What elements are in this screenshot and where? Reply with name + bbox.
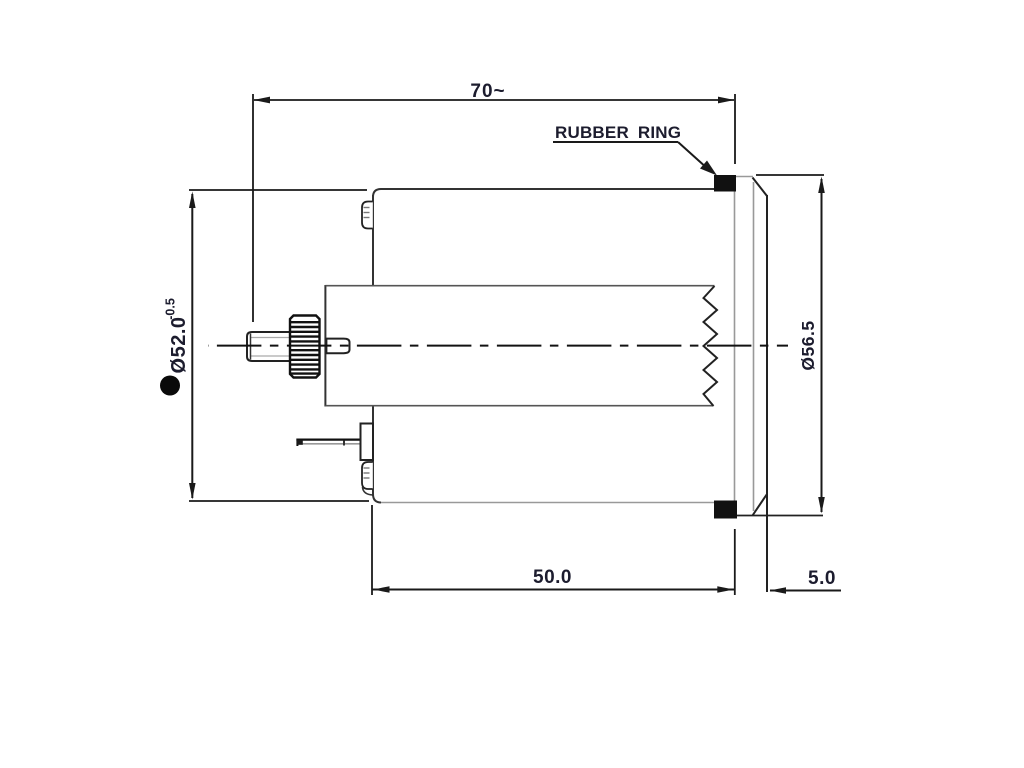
dimension D56.5 : down arrow (818, 497, 825, 514)
terminal lower foot arc (363, 487, 373, 495)
case body : left edge (372, 195, 374, 496)
dimension 50.0 : left arrow (373, 586, 390, 593)
terminal upper (362, 202, 373, 229)
inner housing : white fill (325, 286, 714, 406)
svg-text:RUBBER RING: RUBBER RING (555, 123, 681, 142)
label RUBBER RING : leader arrowhead (700, 161, 717, 176)
svg-text:-0.5: -0.5 (164, 298, 178, 320)
center line dash-dot (208, 345, 788, 347)
dimension D56.5 : dim line (821, 179, 823, 512)
dimension 50.0 : dim line (372, 589, 735, 591)
inner housing : top edge (325, 285, 714, 287)
dimension D52 : bottom extension line (189, 500, 369, 502)
rubber ring top square (714, 175, 736, 192)
inner housing : zigzag break line (704, 286, 718, 406)
bezel : top edge gray (736, 176, 753, 178)
case body : right edge (734, 191, 736, 501)
dimension 70~ : right arrow (718, 97, 735, 104)
reset pin : small tick (343, 441, 345, 446)
dimension D56.5 : up arrow (818, 177, 825, 194)
dimension 5.0 : dim line (770, 590, 841, 592)
bezel : top chamfer (753, 178, 768, 197)
label RUBBER RING : leader line (678, 142, 708, 169)
shaft inner lines (251, 337, 290, 339)
svg-text:5.0: 5.0 (808, 568, 836, 589)
reset pin : bottom gray line (300, 443, 360, 445)
terminal upper ticks (364, 208, 370, 218)
dimension 50.0 : left extension line (371, 505, 373, 595)
terminal lower ticks (364, 468, 370, 478)
dimension D56.5 : top extension line (756, 174, 824, 176)
svg-text:50.0: 50.0 (533, 567, 572, 588)
dimension D52 : dim line (191, 194, 193, 498)
case body : top edge with rounded top-left corner (373, 189, 714, 197)
terminal lower (362, 462, 373, 489)
dimension D52 : up arrow (189, 192, 196, 209)
dimension 70~ : right extension line (734, 94, 736, 164)
rubber ring bottom square (714, 501, 737, 519)
inner housing : bottom edge (325, 405, 713, 407)
reset pin : left end cap (296, 439, 298, 447)
svg-text:Ø56.5: Ø56.5 (798, 320, 818, 370)
shaft nose bullet (326, 339, 349, 354)
svg-text:70~: 70~ (470, 81, 505, 102)
pin bracket (361, 424, 374, 461)
label RUBBER RING : underline (553, 141, 678, 143)
case body : bottom edge (381, 502, 714, 504)
knurled knob body (290, 316, 320, 378)
bezel : bottom chamfer (753, 494, 768, 516)
dimension D52 : top extension line (189, 189, 367, 191)
shaft (247, 332, 291, 361)
dimension 70~ : left extension line (252, 94, 254, 322)
reset pin : top line (296, 439, 360, 441)
svg-text:Ø52.0: Ø52.0 (168, 317, 190, 374)
dimension 5.0 : left arrow (770, 587, 787, 594)
bezel : front face and lower extension (766, 195, 768, 592)
dimension D52 : down arrow (189, 483, 196, 500)
knurl stripes (290, 322, 320, 373)
dimension 70~ : left arrow (254, 97, 271, 104)
dimension 50.0 : right arrow (717, 586, 734, 593)
dimension 50.0 : right extension line (734, 529, 736, 595)
dimension 70~ : dim line (254, 99, 734, 101)
inner housing : left edge (324, 285, 326, 407)
bezel : bottom edge merged with dimension extension (737, 515, 823, 517)
black dot marker (160, 376, 180, 396)
case body : bottom-left rounded corner (373, 494, 381, 503)
bezel : seam vertical gray (753, 182, 755, 511)
